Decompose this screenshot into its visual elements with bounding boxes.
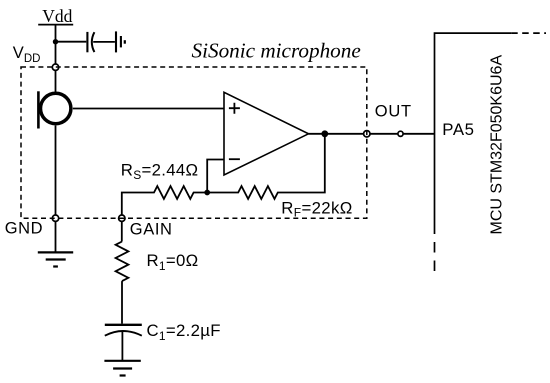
- svg-text:SiSonic microphone: SiSonic microphone: [192, 38, 361, 62]
- svg-text:GAIN: GAIN: [130, 220, 173, 238]
- svg-text:GND: GND: [5, 220, 43, 238]
- svg-text:RF=22kΩ: RF=22kΩ: [281, 198, 352, 219]
- svg-text:C1=2.2µF: C1=2.2µF: [147, 321, 221, 343]
- svg-text:RS=2.44Ω: RS=2.44Ω: [121, 161, 199, 182]
- svg-text:MCU STM32F050K6U6A: MCU STM32F050K6U6A: [489, 55, 506, 235]
- svg-text:PA5: PA5: [442, 120, 474, 139]
- svg-text:R1=0Ω: R1=0Ω: [147, 251, 199, 273]
- svg-text:OUT: OUT: [375, 103, 412, 121]
- svg-text:Vdd: Vdd: [42, 6, 72, 26]
